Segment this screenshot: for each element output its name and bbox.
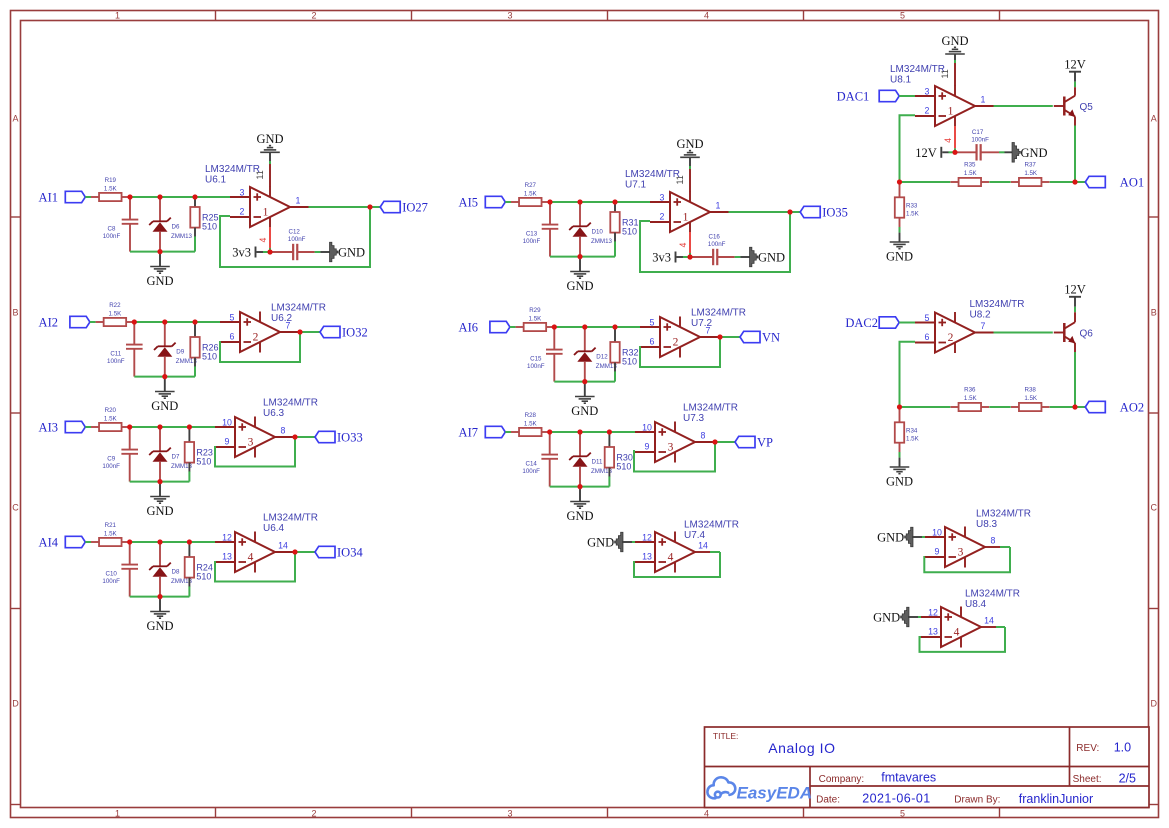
svg-text:1: 1: [948, 105, 954, 117]
wire AI3 to resistor: [85, 426, 91, 428]
capacitor C16 100nF: [712, 249, 714, 265]
ground: [570, 271, 590, 273]
svg-text:8: 8: [991, 536, 996, 546]
wire feedback: [924, 547, 1010, 572]
svg-text:C17: C17: [972, 129, 984, 136]
svg-text:5: 5: [230, 313, 235, 323]
svg-text:2: 2: [673, 336, 679, 348]
op-amp U7.2: [640, 317, 700, 358]
svg-text:100nF: 100nF: [527, 363, 545, 370]
resistor R27 1.5K: [511, 201, 519, 203]
wire ground to pin: [912, 536, 922, 538]
capacitor C13 100nF: [549, 203, 551, 224]
svg-text:D: D: [12, 699, 19, 709]
resistor R31 510: [614, 203, 616, 212]
wire output: [275, 436, 294, 438]
svg-text:R28: R28: [525, 412, 537, 419]
svg-text:R36: R36: [964, 386, 976, 393]
capacitor C14 100nF: [549, 433, 551, 454]
junction output: [717, 334, 722, 339]
svg-text:C: C: [12, 503, 19, 513]
svg-text:12: 12: [928, 608, 938, 618]
junction: [577, 429, 582, 434]
wire feedback: [215, 438, 295, 467]
junction output: [292, 434, 297, 439]
svg-text:LM324M/TR: LM324M/TR: [263, 398, 318, 409]
port IO32: [320, 326, 340, 337]
wire output: [290, 206, 309, 208]
ground stem: [579, 257, 581, 272]
transistor Q6: [1054, 322, 1075, 343]
wire 12V to collector: [1074, 72, 1076, 82]
svg-text:U7.4: U7.4: [684, 530, 706, 541]
junction output: [367, 204, 372, 209]
junction: [607, 429, 612, 434]
resistor R37 1.5K: [1011, 181, 1019, 183]
wire output: [695, 551, 710, 553]
svg-text:GND: GND: [146, 274, 173, 288]
junction output: [297, 329, 302, 334]
wire feedback from pin2: [900, 115, 916, 182]
wire ground rail: [550, 256, 615, 258]
ruler ticks bottom: [216, 808, 1000, 818]
svg-text:1: 1: [683, 211, 689, 223]
svg-text:IO33: IO33: [337, 431, 363, 445]
op-amp U8.4: [921, 607, 981, 648]
svg-text:12V: 12V: [1064, 283, 1086, 297]
transistor Q5: [1054, 96, 1075, 117]
wire output: [981, 626, 996, 628]
svg-text:Date:: Date:: [816, 794, 840, 805]
ground: [575, 396, 595, 398]
svg-text:C12: C12: [289, 229, 301, 236]
resistor R30 510: [608, 433, 610, 447]
svg-text:Q6: Q6: [1080, 329, 1094, 340]
svg-text:GND: GND: [676, 137, 703, 151]
wire AI4 to resistor: [85, 541, 91, 543]
junction output right: [1072, 179, 1077, 184]
pin 11 wire to ground: [954, 63, 956, 86]
svg-text:10: 10: [932, 528, 942, 538]
ground flag: [330, 242, 338, 262]
wire capacitor to ground: [981, 151, 999, 153]
junction on rail: [577, 254, 582, 259]
svg-text:3: 3: [958, 546, 964, 558]
port DAC1: [879, 90, 899, 101]
svg-text:5: 5: [650, 318, 655, 328]
svg-text:D9: D9: [176, 349, 184, 356]
svg-text:R19: R19: [105, 177, 117, 184]
ground flag input pin 12: [901, 607, 909, 627]
svg-text:VN: VN: [762, 331, 780, 345]
svg-text:IO32: IO32: [342, 326, 368, 340]
wire output: [710, 211, 729, 213]
svg-text:1: 1: [716, 201, 721, 211]
port AI2: [70, 316, 90, 327]
svg-text:DAC1: DAC1: [837, 90, 870, 104]
svg-text:6: 6: [925, 332, 930, 342]
wire feedback: [215, 553, 295, 582]
ruler ticks right: [1149, 217, 1159, 805]
wire main net: [134, 321, 221, 323]
svg-text:R37: R37: [1025, 161, 1037, 168]
resistor R26 510: [194, 323, 196, 337]
ground stem: [159, 597, 161, 612]
svg-text:C14: C14: [526, 461, 538, 468]
svg-text:13: 13: [222, 552, 232, 562]
resistor R32 510: [614, 328, 616, 342]
wire feedback: [220, 333, 300, 362]
op-amp U6.2: [220, 312, 280, 353]
junction: [127, 539, 132, 544]
ruler letters right: [1150, 114, 1157, 709]
svg-text:LM324M/TR: LM324M/TR: [625, 169, 680, 180]
wire junction to capacitor: [270, 251, 293, 253]
port VN: [740, 331, 760, 342]
svg-text:GND: GND: [886, 250, 913, 264]
svg-text:5: 5: [900, 11, 905, 21]
svg-text:4: 4: [704, 808, 709, 818]
op-amp U6.3: [215, 417, 275, 458]
resistor R36 1.5K: [951, 406, 959, 408]
svg-text:100nF: 100nF: [102, 463, 120, 470]
junction: [162, 319, 167, 324]
svg-text:U8.3: U8.3: [976, 519, 998, 530]
svg-text:AI4: AI4: [39, 536, 59, 550]
zener diode D8 ZMM13: [159, 543, 161, 566]
svg-text:1.5K: 1.5K: [109, 311, 123, 318]
svg-text:R29: R29: [529, 307, 541, 314]
svg-text:11: 11: [940, 69, 950, 78]
svg-text:3: 3: [668, 441, 674, 453]
wire to output junction: [1050, 181, 1075, 183]
wire main net: [549, 201, 651, 203]
svg-text:1: 1: [115, 808, 120, 818]
ground: [150, 266, 170, 268]
resistor R25 510: [194, 198, 196, 207]
resistor R19 1.5K: [91, 196, 99, 198]
svg-text:ZMM13: ZMM13: [171, 233, 193, 240]
svg-text:3: 3: [240, 188, 245, 198]
svg-text:2: 2: [240, 207, 245, 217]
wire resistor to ground: [899, 218, 901, 227]
svg-text:1.5K: 1.5K: [1024, 395, 1038, 402]
svg-text:GND: GND: [886, 475, 913, 489]
port AO1: [1085, 176, 1105, 187]
svg-text:4: 4: [704, 11, 709, 21]
svg-text:R21: R21: [105, 522, 117, 529]
capacitor C17 100nF: [975, 144, 977, 160]
ground stem: [164, 377, 166, 392]
svg-text:1.5K: 1.5K: [104, 186, 118, 193]
wire 510 to rail: [608, 476, 610, 486]
wire feedback from pin2: [900, 342, 916, 407]
svg-text:R22: R22: [109, 302, 121, 309]
op-amp U8.2: [915, 312, 975, 353]
wire ground rail: [130, 481, 190, 483]
svg-text:R35: R35: [964, 161, 976, 168]
svg-text:Analog IO: Analog IO: [768, 740, 835, 756]
svg-text:D11: D11: [592, 459, 603, 466]
svg-text:Drawn By:: Drawn By:: [954, 794, 1000, 805]
wire feedback: [634, 552, 720, 577]
svg-text:100nF: 100nF: [102, 578, 120, 585]
svg-text:1.5K: 1.5K: [964, 170, 978, 177]
wire output: [695, 441, 714, 443]
wire junction to capacitor: [690, 256, 713, 258]
port AO2: [1085, 401, 1105, 412]
svg-text:1.5K: 1.5K: [964, 395, 978, 402]
svg-text:GND: GND: [146, 619, 173, 633]
zener diode D11 ZMM13: [579, 433, 581, 456]
svg-text:4: 4: [258, 238, 268, 243]
port AI5: [485, 196, 505, 207]
zener diode D6 ZMM13: [159, 198, 161, 221]
title block outline: [705, 727, 1150, 808]
zener diode D9 ZMM13: [164, 323, 166, 346]
svg-text:1.5K: 1.5K: [524, 191, 538, 198]
svg-text:LM324M/TR: LM324M/TR: [691, 308, 746, 319]
port DAC2: [879, 317, 899, 328]
wire between resistors: [989, 181, 1010, 183]
ground: [570, 501, 590, 503]
svg-text:1.5K: 1.5K: [906, 435, 920, 442]
svg-text:4: 4: [678, 243, 688, 248]
ground flag input pin 12: [615, 532, 623, 552]
wire ground to pin: [622, 541, 632, 543]
resistor R20 1.5K: [91, 426, 99, 428]
svg-text:U6.4: U6.4: [263, 523, 285, 534]
svg-text:2: 2: [660, 212, 665, 222]
title block row line: [705, 766, 1150, 768]
svg-text:AO1: AO1: [1120, 176, 1144, 190]
svg-text:U6.1: U6.1: [205, 175, 227, 186]
resistor R34 1.5K to ground: [899, 407, 901, 422]
junction: [127, 424, 132, 429]
junction: [192, 319, 197, 324]
svg-text:100nF: 100nF: [971, 137, 989, 144]
wire feedback: [640, 338, 720, 367]
svg-text:9: 9: [935, 547, 940, 557]
svg-text:C11: C11: [110, 351, 121, 358]
wire main net: [554, 326, 641, 328]
svg-text:REV:: REV:: [1076, 743, 1099, 754]
wire main net: [129, 196, 231, 198]
svg-text:GND: GND: [338, 246, 365, 260]
port AI6: [490, 321, 510, 332]
svg-text:3v3: 3v3: [232, 246, 251, 260]
wire output: [275, 551, 294, 553]
svg-text:U6.3: U6.3: [263, 408, 285, 419]
svg-text:510: 510: [196, 571, 211, 581]
ground flag input pin 10: [905, 527, 913, 547]
pin 4 wire to 3v3: [689, 232, 691, 253]
svg-text:R27: R27: [525, 182, 537, 189]
junction output: [712, 439, 717, 444]
junction: [612, 324, 617, 329]
wire to output junction: [1050, 406, 1075, 408]
svg-text:1: 1: [263, 206, 269, 218]
svg-text:4: 4: [668, 551, 674, 563]
svg-text:LM324M/TR: LM324M/TR: [890, 64, 945, 75]
svg-text:AI2: AI2: [39, 316, 58, 330]
svg-text:14: 14: [984, 616, 994, 626]
ruler ticks top: [216, 11, 1000, 21]
svg-text:A: A: [1151, 114, 1157, 124]
capacitor C12 100nF: [292, 244, 294, 260]
port IO27: [380, 201, 400, 212]
pin 11 wire to ground: [689, 169, 691, 192]
svg-text:C8: C8: [108, 226, 116, 233]
port AI4: [65, 536, 85, 547]
svg-text:Q5: Q5: [1080, 102, 1094, 113]
svg-text:2: 2: [253, 331, 259, 343]
wire feedback: [634, 443, 715, 472]
svg-text:14: 14: [698, 541, 708, 551]
svg-text:2: 2: [311, 808, 316, 818]
svg-text:100nF: 100nF: [708, 241, 726, 248]
op-amp U7.1: [650, 192, 710, 233]
op-amp U8.3: [925, 527, 985, 568]
svg-text:510: 510: [196, 456, 211, 466]
wire output: [700, 336, 719, 338]
title block rev divider: [1069, 727, 1071, 786]
svg-text:3: 3: [925, 87, 930, 97]
pin 4 wire to 3v3: [269, 227, 271, 248]
svg-text:GND: GND: [877, 531, 904, 545]
ground stem: [579, 487, 581, 502]
svg-text:13: 13: [928, 627, 938, 637]
wire main net: [549, 431, 636, 433]
svg-text:EasyEDA: EasyEDA: [737, 784, 813, 803]
svg-text:2: 2: [948, 332, 954, 344]
ground: [155, 391, 175, 393]
svg-text:AI1: AI1: [39, 191, 58, 205]
junction: [547, 429, 552, 434]
capacitor C11 100nF: [133, 323, 135, 344]
node AI1 block: [0, 0, 1, 1]
junction: [187, 424, 192, 429]
svg-text:3: 3: [248, 436, 254, 448]
svg-text:LM324M/TR: LM324M/TR: [205, 164, 260, 175]
wire ground rail: [130, 596, 190, 598]
wire AI1 to resistor: [85, 196, 91, 198]
svg-text:DAC2: DAC2: [845, 316, 878, 330]
resistor R33 1.5K to ground: [899, 182, 901, 197]
svg-text:U7.3: U7.3: [683, 413, 705, 424]
svg-text:2021-06-01: 2021-06-01: [862, 792, 930, 806]
ruler numbers bottom: [115, 808, 905, 818]
svg-text:D10: D10: [592, 229, 604, 236]
svg-text:R34: R34: [906, 427, 918, 434]
svg-text:A: A: [12, 114, 18, 124]
ground: [890, 466, 910, 468]
svg-text:100nF: 100nF: [107, 358, 125, 365]
EasyEDA logo cloud: [707, 777, 735, 798]
wire 12V to collector: [1074, 297, 1076, 307]
svg-text:11: 11: [675, 175, 685, 184]
junction: [132, 319, 137, 324]
op-amp U7.4: [635, 532, 695, 573]
resistor R28 1.5K: [511, 431, 519, 433]
svg-text:AI7: AI7: [459, 426, 478, 440]
svg-text:fmtavares: fmtavares: [881, 771, 936, 785]
svg-text:C10: C10: [106, 571, 118, 578]
svg-text:6: 6: [230, 332, 235, 342]
svg-text:5: 5: [925, 313, 930, 323]
port VP: [735, 436, 755, 447]
svg-text:510: 510: [202, 221, 217, 231]
svg-text:franklinJunior: franklinJunior: [1019, 792, 1093, 806]
svg-text:510: 510: [202, 351, 217, 361]
wire output: [985, 546, 1000, 548]
wire output: [280, 331, 299, 333]
wire 12V to junction: [942, 151, 948, 153]
junction pin4: [267, 249, 272, 254]
svg-text:14: 14: [278, 541, 288, 551]
svg-text:4: 4: [248, 551, 254, 563]
wire emitter to output node: [1074, 343, 1076, 352]
wire DAC1 to op-amp: [899, 95, 916, 97]
svg-text:U7.1: U7.1: [625, 180, 647, 191]
wire capacitor to ground: [297, 251, 314, 253]
svg-text:510: 510: [622, 356, 637, 366]
svg-text:LM324M/TR: LM324M/TR: [976, 509, 1031, 520]
svg-text:C16: C16: [709, 234, 721, 241]
svg-text:C13: C13: [526, 231, 538, 238]
junction: [187, 539, 192, 544]
svg-text:LM324M/TR: LM324M/TR: [271, 303, 326, 314]
wire 3v3 to junction: [677, 256, 684, 258]
svg-text:12V: 12V: [915, 146, 937, 160]
wire emitter to output node: [1074, 116, 1076, 125]
svg-text:GND: GND: [941, 34, 968, 48]
capacitor C9 100nF: [129, 428, 131, 449]
svg-text:2/5: 2/5: [1119, 771, 1136, 785]
svg-text:6: 6: [650, 337, 655, 347]
title block logo divider: [809, 767, 811, 808]
wire junction to port: [1074, 406, 1085, 408]
svg-text:1: 1: [115, 11, 120, 21]
svg-text:10: 10: [222, 418, 232, 428]
svg-text:7: 7: [981, 321, 986, 331]
svg-text:LM324M/TR: LM324M/TR: [965, 589, 1020, 600]
svg-text:1.5K: 1.5K: [1024, 170, 1038, 177]
svg-text:10: 10: [642, 423, 652, 433]
junction on rail: [162, 374, 167, 379]
junction: [157, 539, 162, 544]
svg-text:9: 9: [225, 437, 230, 447]
wire 510 to rail: [188, 471, 190, 481]
ground: [150, 611, 170, 613]
svg-text:AI6: AI6: [459, 321, 478, 335]
svg-text:3: 3: [507, 808, 512, 818]
svg-text:100nF: 100nF: [103, 233, 121, 240]
wire 510 to rail: [188, 586, 190, 596]
svg-text:1.5K: 1.5K: [524, 421, 538, 428]
capacitor C10 100nF: [129, 543, 131, 564]
port AI1: [65, 191, 85, 202]
svg-text:U6.2: U6.2: [271, 313, 293, 324]
wire 3v3 to junction: [257, 251, 264, 253]
svg-text:13: 13: [642, 552, 652, 562]
svg-text:D8: D8: [172, 569, 180, 576]
ruler letters left: [12, 114, 19, 709]
wire feedback: [920, 627, 1006, 652]
resistor R38 1.5K: [1011, 406, 1019, 408]
svg-text:AO2: AO2: [1120, 401, 1144, 415]
svg-text:ZMM13: ZMM13: [591, 238, 613, 245]
